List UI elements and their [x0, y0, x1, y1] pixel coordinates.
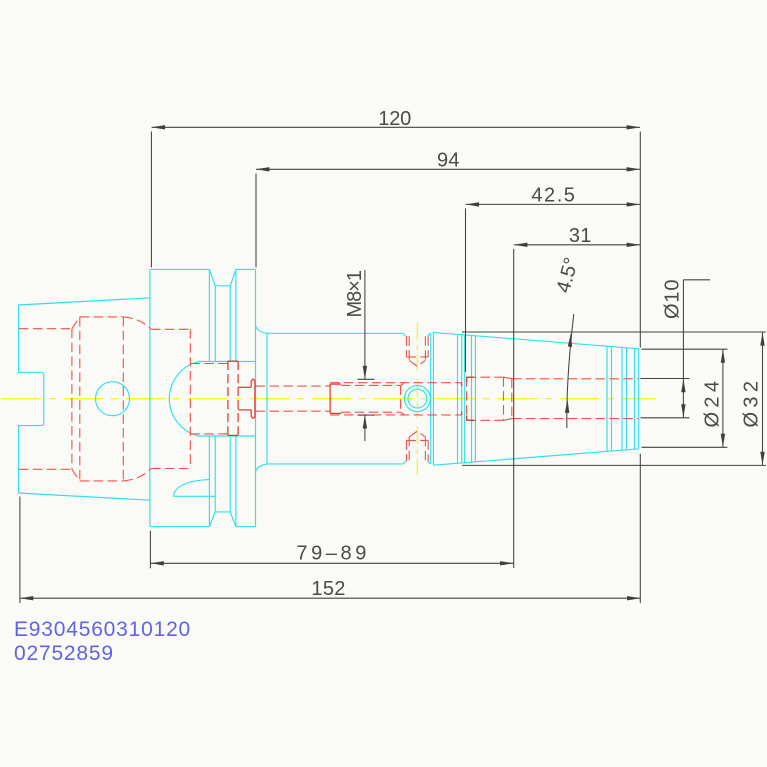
tip ring line 4 [626, 348, 628, 450]
svg-text:31: 31 [569, 225, 592, 247]
taper bottom surface [433, 449, 638, 465]
ring line 1 [457, 334, 459, 463]
top radial hole minor left [408, 336, 410, 360]
top radial hole minor right [424, 336, 426, 360]
bottom radial hole thread top [406, 439, 428, 441]
shank bore line bottom [19, 468, 72, 470]
thread end chamfer bottom [401, 412, 405, 415]
top radial hole major left [405, 336, 407, 357]
cavity chamfer top [72, 317, 80, 329]
neck undercut arc bottom [256, 464, 267, 472]
arrow 94 left [256, 167, 269, 171]
coolant tube bore top [256, 385, 331, 387]
arrow 42.5 right [627, 202, 640, 206]
top hole mouth chamfer right [428, 333, 431, 336]
svg-text:M8×1: M8×1 [344, 270, 366, 318]
arrow 120 right [627, 125, 640, 129]
tip ring line 2 [611, 347, 613, 451]
ring line 3 [464, 335, 466, 463]
radial hole centerline bottom [416, 426, 418, 475]
flange left face [149, 269, 151, 526]
clamp screw box bottom [228, 434, 238, 436]
clearance bore bottom [467, 419, 504, 421]
dim 152 line [20, 597, 641, 599]
ext line nose tip top [639, 132, 641, 348]
flange V-groove bottom [209, 512, 236, 527]
ring line 2 [461, 335, 463, 463]
arrow 152 left [20, 596, 33, 600]
arrow 94 right [627, 167, 640, 171]
groove silhouette line b top [214, 286, 216, 362]
ext line bore top [641, 378, 690, 380]
svg-text:120: 120 [378, 108, 412, 130]
arrow dia10 bottom [681, 404, 685, 417]
svg-text:Ø24: Ø24 [702, 381, 724, 428]
shank bore line top [19, 328, 72, 330]
bore corner solid top [467, 377, 474, 382]
ext line flange right top [255, 174, 257, 268]
dim 79-89 line [150, 562, 513, 564]
thread end step [400, 385, 402, 412]
M8 thread minor bottom [341, 411, 401, 413]
pocket top edge [198, 361, 256, 363]
ext line 152 left [19, 497, 21, 604]
screw end top [330, 383, 341, 385]
cavity feature line [122, 317, 124, 481]
M8 tick top [358, 378, 375, 380]
radial hole centerline mid [416, 379, 418, 418]
arrow dia32 top [760, 332, 764, 345]
flange bore back wall [189, 329, 191, 468]
arrow dia24 top [721, 349, 725, 362]
clamp screw box right [237, 361, 239, 435]
neck undercut arc top [256, 326, 267, 334]
tube solid top [238, 386, 251, 388]
tube nipple lower left wall [251, 410, 253, 419]
ext line body od bottom [462, 464, 766, 466]
body bottom edge [267, 463, 403, 465]
arrow 152 right [627, 596, 640, 600]
flange top edge right [236, 268, 256, 270]
bottom radial hole minor right [424, 437, 426, 461]
ext line tip od top [642, 348, 728, 350]
top radial hole point [409, 360, 425, 366]
arrow M8 top [363, 366, 367, 379]
gripper pocket stadium [169, 362, 199, 437]
coolant tube bore bottom [256, 410, 331, 412]
groove silhouette line c bottom [229, 436, 231, 512]
arrow 79-89 left [150, 561, 163, 565]
top radial hole thread bottom [406, 356, 428, 358]
top radial hole major right [427, 336, 429, 357]
svg-text:94: 94 [437, 149, 460, 171]
flange V-groove top [209, 269, 236, 285]
groove silhouette line a top [208, 269, 210, 361]
M8 thread major top [330, 382, 462, 384]
shank drive hole circle [96, 382, 130, 416]
tip ring line 1 [606, 346, 608, 451]
bore step solid mark bottom [461, 412, 463, 415]
bore corner solid bottom [467, 416, 474, 421]
dia10 landing line [683, 279, 710, 281]
pocket floor hidden bottom [190, 433, 228, 435]
thread end chamfer top [401, 383, 405, 386]
arrow dia10 top [681, 379, 685, 392]
angle leader arc [567, 314, 574, 428]
bottom hole mouth chamfer left [403, 461, 406, 464]
bore step solid mark top [461, 383, 463, 387]
cross hole inner circle [408, 389, 427, 408]
flange top edge left [150, 268, 210, 270]
groove silhouette line b bottom [214, 436, 216, 512]
cavity bottom line [80, 480, 124, 482]
ring line 4 [471, 336, 473, 463]
arrow angle upper [568, 333, 572, 347]
tube nipple right wall [253, 379, 255, 419]
ext line 42.5 [465, 209, 467, 373]
cavity wall line [79, 317, 81, 481]
groove silhouette line d top [235, 269, 237, 361]
arrow 31 right [627, 243, 640, 247]
pocket bottom edge [198, 435, 256, 437]
bore chamfer top [504, 377, 512, 379]
arrow M8 bottom [363, 415, 367, 428]
HSK shank outline [19, 298, 150, 500]
flange right face [255, 269, 257, 526]
tube nipple left wall [251, 379, 253, 388]
screw end wall [329, 384, 331, 413]
flange scallop arc [173, 480, 209, 497]
svg-text:Ø10: Ø10 [662, 279, 684, 319]
M8 leader lower [364, 415, 366, 441]
nose tip face [638, 349, 640, 449]
ext line body od top [462, 331, 766, 333]
bore chamfer bottom [504, 419, 512, 421]
flange bottom edge right [236, 526, 256, 528]
ring line 5 [474, 336, 476, 462]
arrow 31 left [514, 243, 527, 247]
bore step wall [466, 377, 468, 420]
ext line 79-89 left [149, 531, 151, 569]
groove silhouette line a bottom [208, 436, 210, 527]
cavity end wall [71, 329, 73, 470]
groove silhouette line d bottom [235, 436, 237, 527]
clamp screw box top [228, 360, 238, 362]
main axis centerline [2, 398, 656, 400]
body top edge [267, 332, 403, 334]
dim 31 line [514, 244, 640, 246]
radial hole centerline top [416, 322, 418, 371]
svg-text:152: 152 [311, 578, 346, 600]
bottom radial hole major right [427, 440, 429, 461]
svg-text:E9304560310120: E9304560310120 [14, 618, 191, 641]
flange bore top [151, 328, 190, 330]
bottom radial hole minor left [408, 437, 410, 461]
cavity chamfer bottom [72, 469, 80, 481]
ext line tip od bottom [642, 446, 728, 448]
svg-text:02752859: 02752859 [14, 642, 114, 665]
M8 thread minor top [341, 384, 401, 386]
groove silhouette line c top [229, 286, 231, 362]
cavity transition arc top [123, 317, 151, 329]
ext line flange left top [150, 132, 152, 268]
cavity transition arc bottom [123, 469, 151, 481]
svg-text:79–89: 79–89 [296, 543, 367, 565]
screw end bottom [330, 412, 341, 414]
body bottom edge right [429, 463, 431, 465]
flange scallop chord [173, 495, 215, 497]
shrink bore bottom [512, 418, 639, 420]
arrow angle lower [565, 400, 569, 414]
svg-text:Ø32: Ø32 [741, 381, 763, 428]
bottom radial hole major left [405, 440, 407, 461]
arrow 42.5 left [466, 202, 479, 206]
dia32 dim line [762, 332, 764, 465]
M8 tick bottom [358, 414, 375, 416]
ext line 31 and 79-89 right [513, 249, 515, 568]
tip ring line 3 [621, 348, 623, 451]
bottom radial hole point [409, 431, 425, 437]
ext line bore bottom [641, 417, 690, 419]
tip ring line 5 [634, 349, 636, 450]
flange bottom edge left [150, 526, 210, 528]
taper top surface [433, 332, 638, 348]
body left edge [266, 333, 268, 464]
M8 thread major bottom [330, 414, 462, 416]
dim 94 line [256, 168, 640, 170]
bore step vertical a [503, 377, 505, 420]
dia24 dim line [722, 349, 724, 447]
M8 leader upper [364, 270, 366, 379]
pocket floor hidden top [190, 363, 228, 365]
cavity top line [80, 316, 124, 318]
cross hole outer circle [404, 386, 430, 412]
svg-text:42.5: 42.5 [531, 184, 575, 206]
bottom hole mouth chamfer right [428, 461, 431, 464]
body right edge line2 [432, 332, 434, 465]
clearance bore top [467, 376, 504, 378]
top hole mouth chamfer left [403, 333, 406, 336]
arrow dia32 bottom [760, 452, 764, 465]
dia10 dim line [682, 280, 684, 418]
dim 120 line [152, 126, 640, 128]
body top edge right [429, 332, 431, 334]
arrow dia24 bottom [721, 434, 725, 447]
shrink bore top [512, 378, 639, 380]
bore step vertical b [511, 379, 513, 419]
arrow 120 left [152, 125, 165, 129]
dim 42.5 line [466, 203, 640, 205]
clamp screw box left [227, 361, 229, 435]
body right edge line1 [430, 333, 432, 464]
flange bore bottom [151, 468, 190, 470]
tube solid bottom [238, 409, 251, 411]
ext line nose tip bottom [639, 454, 641, 603]
arrow 79-89 right [500, 561, 513, 565]
